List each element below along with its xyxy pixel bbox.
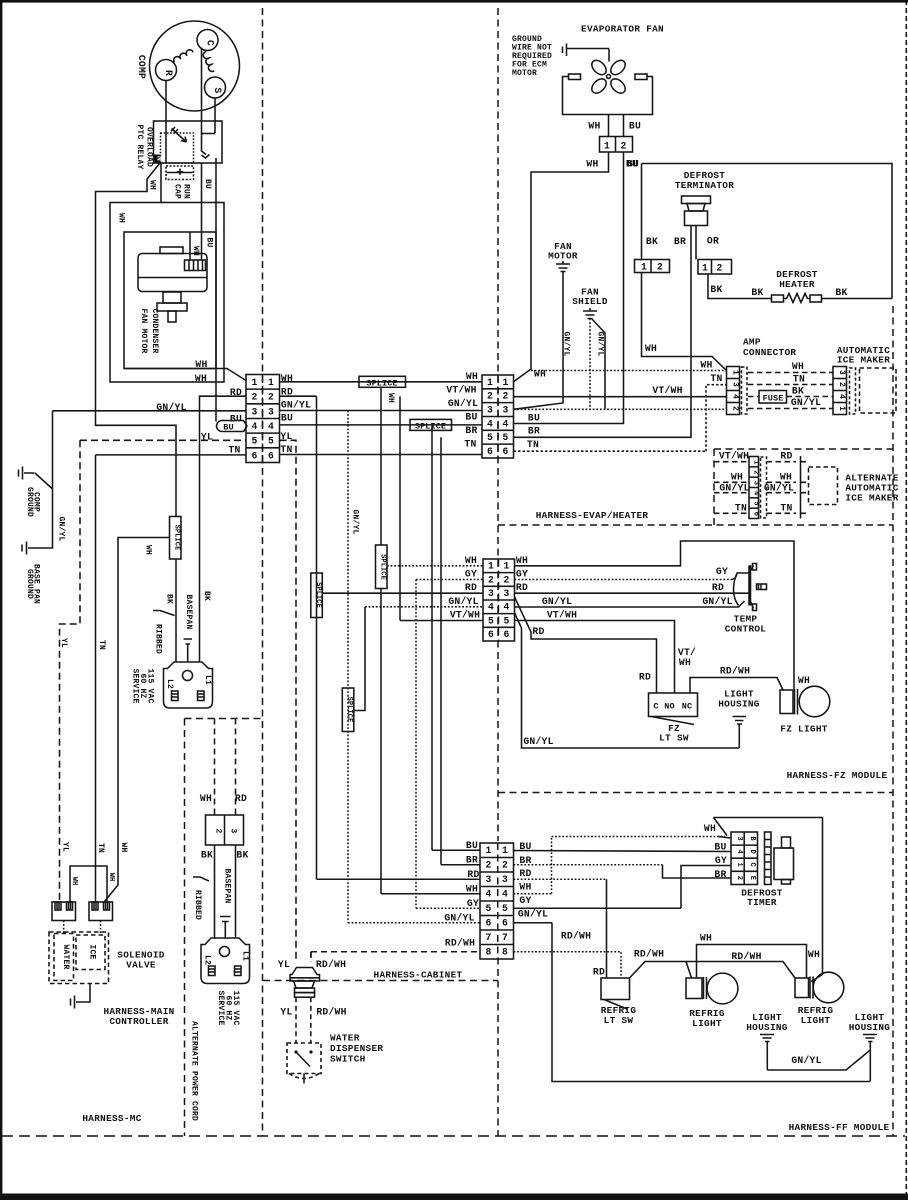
svg-text:WH: WH xyxy=(107,873,115,882)
splice SPLICE rotated box on GN/YL tap xyxy=(342,688,354,732)
svg-text:TN: TN xyxy=(710,373,722,384)
connector AMP mating strip dashed xyxy=(742,367,748,414)
svg-text:TN: TN xyxy=(735,502,747,513)
svg-text:TN: TN xyxy=(780,502,792,513)
condenser motor wire WH xyxy=(189,232,191,260)
condenser motor terminal block (hatched) xyxy=(185,260,206,271)
solenoid coil connector 2 xyxy=(89,902,113,921)
connector CABINET middle dashed xyxy=(497,843,499,959)
solenoid ICE sub-box dashed xyxy=(76,935,105,970)
svg-text:C: C xyxy=(748,863,756,867)
wire BR cab to timer xyxy=(514,864,663,866)
lamp REFRIG LIGHT 2 bulb xyxy=(813,972,844,1003)
svg-text:RD: RD xyxy=(712,582,724,593)
svg-text:2: 2 xyxy=(837,382,846,387)
connector FZ middle dashed xyxy=(498,559,500,641)
wire GY to temp control xyxy=(515,579,732,581)
svg-text:CAP: CAP xyxy=(172,184,181,199)
svg-text:MOTOR: MOTOR xyxy=(512,69,537,78)
comp ground symbol xyxy=(19,467,35,480)
svg-text:4: 4 xyxy=(251,421,257,432)
svg-text:R: R xyxy=(163,70,174,76)
wire WH fz row1 to FZ light xyxy=(515,541,795,689)
svg-text:BK: BK xyxy=(710,284,722,295)
svg-text:1: 1 xyxy=(604,141,610,152)
svg-text:BK: BK xyxy=(201,850,213,861)
svg-text:4: 4 xyxy=(503,602,509,613)
defrost terminator neck xyxy=(687,204,705,212)
svg-text:GN/YL: GN/YL xyxy=(448,596,478,607)
svg-text:SPLICE: SPLICE xyxy=(173,525,181,551)
svg-text:BU: BU xyxy=(223,422,233,432)
svg-text:HARNESS-FF MODULE: HARNESS-FF MODULE xyxy=(789,1122,890,1133)
svg-text:2: 2 xyxy=(488,574,494,585)
evap fan ground symbol xyxy=(563,44,610,57)
svg-text:RD/WH: RD/WH xyxy=(316,959,346,970)
svg-text:WH: WH xyxy=(465,555,477,566)
svg-text:5: 5 xyxy=(488,615,494,626)
svg-text:HEATER: HEATER xyxy=(779,279,815,290)
svg-text:VT/WH: VT/WH xyxy=(450,610,480,621)
svg-text:6: 6 xyxy=(502,446,508,457)
wire WH jumper solenoid coils xyxy=(70,866,107,902)
svg-text:HARNESS-CABINET: HARNESS-CABINET xyxy=(374,970,463,981)
switch WATER DISPENSER box dashed xyxy=(287,1043,321,1074)
svg-text:2: 2 xyxy=(502,391,508,402)
svg-text:BK: BK xyxy=(202,591,211,601)
svg-text:COMP: COMP xyxy=(136,55,147,79)
svg-text:BU: BU xyxy=(714,842,726,853)
svg-text:TN: TN xyxy=(228,445,240,456)
svg-text:3: 3 xyxy=(837,370,846,375)
svg-text:3: 3 xyxy=(502,874,508,885)
inline connector water (body) xyxy=(290,977,320,979)
bottom harness boundary dashed y1136 xyxy=(2,1135,905,1137)
svg-text:TN: TN xyxy=(793,374,805,385)
svg-text:HARNESS-EVAP/HEATER: HARNESS-EVAP/HEATER xyxy=(536,510,649,521)
svg-text:RD/WH: RD/WH xyxy=(634,949,664,960)
svg-text:4: 4 xyxy=(488,602,494,613)
connector defrost 1-2 (BK) xyxy=(635,260,670,273)
wire BR terminator to evap row5 xyxy=(514,226,692,438)
svg-text:RD: RD xyxy=(639,672,651,683)
wire RD/WH dashed valve to switch xyxy=(310,997,312,1043)
wire WH cab to timer xyxy=(514,837,726,894)
wire WH timer diag xyxy=(714,818,732,839)
svg-text:L1: L1 xyxy=(241,951,250,961)
light housing 1 ground symbol xyxy=(760,1035,774,1071)
svg-text:GN/YL: GN/YL xyxy=(523,736,553,747)
connector defrost timer box xyxy=(731,832,758,885)
alt ice maker dashed body xyxy=(809,467,838,505)
compressor winding C-S coil xyxy=(203,52,214,72)
alternate power cord dashed left x184.5 xyxy=(184,719,186,1137)
svg-text:TN: TN xyxy=(280,444,292,455)
wire TN down to coil xyxy=(95,455,97,902)
wire YL dashed down xyxy=(60,440,81,902)
svg-text:GN/YL: GN/YL xyxy=(57,516,66,541)
connector MC 6-pin box xyxy=(246,375,280,463)
wire RD dashed to alt cord box xyxy=(235,719,237,816)
defrost terminator cap xyxy=(682,196,711,204)
svg-text:N: N xyxy=(155,156,164,161)
svg-text:BU: BU xyxy=(465,412,477,423)
svg-text:RD/WH: RD/WH xyxy=(731,951,761,962)
splice SPLICE rotated box on RD drop xyxy=(311,573,323,618)
svg-text:GN/YL: GN/YL xyxy=(351,509,360,534)
wire WH row1 bus xyxy=(280,381,483,383)
wire GN/YL to grounds xyxy=(35,411,246,548)
harness divider dashed vertical x498 (lower) xyxy=(497,958,499,1137)
svg-text:GN/YL: GN/YL xyxy=(791,397,821,408)
switch FZ LT SW lever xyxy=(651,717,694,725)
svg-text:GN/YL: GN/YL xyxy=(542,596,572,607)
svg-text:FZ LIGHT: FZ LIGHT xyxy=(780,724,827,735)
svg-text:2: 2 xyxy=(620,141,626,152)
wire RD down to cabinet row3 xyxy=(316,396,318,879)
svg-text:SPLICE: SPLICE xyxy=(345,697,353,723)
connector evap fan 1-2 xyxy=(600,137,633,153)
splice SPLICE box on WH bus xyxy=(359,376,406,387)
svg-text:GN/YL: GN/YL xyxy=(562,331,571,356)
connector ice maker 4-pin box xyxy=(833,367,847,415)
svg-text:AMP: AMP xyxy=(743,337,761,348)
wire RD/WH to FZ light xyxy=(690,678,783,694)
svg-text:EVAPORATOR FAN: EVAPORATOR FAN xyxy=(581,24,664,35)
svg-text:2: 2 xyxy=(657,262,663,273)
water dispenser switch contacts xyxy=(294,1050,297,1053)
lamp REFRIG LIGHT 1 bulb xyxy=(707,973,738,1004)
alt basepan ground symbol xyxy=(220,917,231,939)
plug P1 blade L1 xyxy=(198,691,205,701)
svg-text:1: 1 xyxy=(251,377,257,388)
wire RD/WH lt sw to refrig light xyxy=(630,962,796,979)
svg-text:FUSE: FUSE xyxy=(763,393,784,403)
connector alt ice maker 6-pin box xyxy=(749,457,759,519)
wire GY into cab row5 xyxy=(416,907,480,909)
svg-text:GN/YL: GN/YL xyxy=(764,483,794,494)
alt ice maker header pins xyxy=(801,456,807,519)
wire GY cab to timer xyxy=(514,866,732,909)
wire BK heater loop right+top xyxy=(642,164,893,299)
svg-text:D: D xyxy=(748,849,756,853)
svg-text:BU: BU xyxy=(281,412,293,423)
svg-text:CONNECTOR: CONNECTOR xyxy=(743,347,796,358)
wire WH timer over to refrig light xyxy=(714,818,823,982)
wire RD alt row1 dashed xyxy=(767,461,797,463)
svg-text:B: B xyxy=(748,836,756,841)
temp control symbol xyxy=(731,565,754,609)
wire WH fz row1 left stub xyxy=(387,565,483,567)
svg-text:VT/WH: VT/WH xyxy=(547,610,577,621)
svg-text:1: 1 xyxy=(735,863,743,867)
svg-text:WH: WH xyxy=(704,823,716,834)
wire WH into cab row4 xyxy=(381,893,480,895)
svg-text:4: 4 xyxy=(485,888,491,899)
solenoid valve ground xyxy=(71,984,91,1009)
svg-text:3: 3 xyxy=(251,406,257,417)
svg-text:SWITCH: SWITCH xyxy=(330,1054,366,1065)
svg-text:WH: WH xyxy=(191,246,200,256)
wire TN alt row6 dashed xyxy=(714,512,749,514)
svg-text:RD/WH: RD/WH xyxy=(445,938,475,949)
svg-text:TN: TN xyxy=(464,439,476,450)
svg-text:RD: RD xyxy=(516,582,528,593)
svg-text:1: 1 xyxy=(502,377,508,388)
svg-text:BR: BR xyxy=(714,869,726,880)
svg-text:WH: WH xyxy=(780,471,792,482)
wire BU fan to evap row4 xyxy=(514,152,624,424)
harness-fz bottom dashed y792 xyxy=(498,792,893,794)
svg-text:HARNESS-MC: HARNESS-MC xyxy=(82,1113,141,1124)
svg-text:BASEPAN: BASEPAN xyxy=(184,594,193,629)
svg-text:RIBBED: RIBBED xyxy=(193,890,202,920)
connector FZ 6-pin box xyxy=(483,559,515,641)
svg-text:OR: OR xyxy=(707,236,719,247)
wire VT/WH fz row5 left stub xyxy=(400,620,483,622)
svg-text:VALVE: VALVE xyxy=(126,960,156,971)
relay terminal N xyxy=(154,155,161,164)
wire S terminal down xyxy=(214,98,216,134)
svg-text:4: 4 xyxy=(268,421,274,432)
svg-text:LIGHT: LIGHT xyxy=(692,1018,722,1029)
svg-text:LT SW: LT SW xyxy=(659,733,689,744)
svg-text:2: 2 xyxy=(502,859,508,870)
svg-text:5: 5 xyxy=(751,501,759,505)
svg-text:GY: GY xyxy=(467,898,479,909)
wire BU cab to timer xyxy=(514,851,732,852)
lamp REFRIG LIGHT 2 socket xyxy=(795,978,809,998)
svg-text:WH: WH xyxy=(195,359,207,370)
plug P2 ground pin xyxy=(220,947,230,957)
svg-text:3: 3 xyxy=(268,406,274,417)
svg-text:L2: L2 xyxy=(165,679,174,689)
wire WH fan drop xyxy=(608,115,610,137)
wire OR terminator stem xyxy=(695,226,697,260)
svg-text:5: 5 xyxy=(268,436,274,447)
condenser motor wire BU xyxy=(201,232,203,260)
svg-text:4: 4 xyxy=(487,418,493,429)
wire C terminal down xyxy=(201,48,203,147)
connector EVAP 6-pin box xyxy=(482,375,514,458)
svg-text:2: 2 xyxy=(487,391,493,402)
wire BU fan drop xyxy=(623,115,625,137)
svg-text:WH: WH xyxy=(466,371,478,382)
svg-text:FAN MOTOR: FAN MOTOR xyxy=(139,308,148,353)
svg-text:YL: YL xyxy=(278,959,290,970)
defrost terminator body xyxy=(685,211,708,226)
svg-text:RD: RD xyxy=(593,967,605,978)
svg-text:3: 3 xyxy=(503,588,509,599)
svg-text:2: 2 xyxy=(251,392,257,403)
wire BK loop left upper xyxy=(641,164,643,260)
wire WH fan to evap connector xyxy=(514,152,609,382)
evap fan motor blades xyxy=(607,75,611,79)
svg-text:1: 1 xyxy=(485,845,491,856)
plug P2 blade L1 xyxy=(235,966,242,976)
svg-text:GN/YL: GN/YL xyxy=(281,400,311,411)
svg-text:OVERLOAD: OVERLOAD xyxy=(145,127,154,167)
ice maker dashed body xyxy=(860,368,897,413)
svg-text:TERMINATOR: TERMINATOR xyxy=(675,180,734,191)
water dispenser switch bottom arc xyxy=(289,1074,319,1079)
svg-text:BU: BU xyxy=(629,121,641,132)
svg-text:1: 1 xyxy=(641,262,647,273)
wire BR down to cabinet row2 xyxy=(440,437,442,864)
evap fan left terminal xyxy=(569,74,581,80)
wire WH alt row3 dashed xyxy=(714,481,749,483)
long wire BU from relay to connector row4 xyxy=(215,158,217,422)
wire BK AMP to fuse dashed xyxy=(748,396,759,398)
light housing fz ground symbol xyxy=(733,717,747,749)
svg-text:3: 3 xyxy=(485,874,491,885)
light housing 2 ground symbol xyxy=(863,1035,877,1082)
solenoid WATER sub-box dashed xyxy=(54,934,74,981)
svg-text:1: 1 xyxy=(702,263,708,274)
wire GN/YL alt row4 dashed xyxy=(767,492,797,494)
alt cord connector box xyxy=(206,815,244,845)
svg-text:HOUSING: HOUSING xyxy=(746,1022,788,1033)
wire WH relay diagonal xyxy=(96,163,177,517)
svg-text:4: 4 xyxy=(751,491,759,495)
svg-text:RUN: RUN xyxy=(182,184,191,199)
svg-text:L1: L1 xyxy=(203,675,212,685)
harness-evap/heater bottom dashed y525 xyxy=(498,524,893,526)
wire VT/WH evap row2 to AMP pin4 xyxy=(514,396,727,398)
svg-text:SERVICE: SERVICE xyxy=(131,668,140,703)
inline connector water (top half) xyxy=(290,968,320,982)
svg-text:5: 5 xyxy=(502,903,508,914)
svg-text:BK: BK xyxy=(165,594,174,604)
svg-text:2: 2 xyxy=(485,859,491,870)
connector alt ice maker strip dashed xyxy=(761,457,767,518)
wire BK fuse to ice maker dashed xyxy=(787,396,834,398)
relay to run cap wire xyxy=(160,163,162,203)
splice SPLICE rotated box on WH drop xyxy=(376,545,388,589)
svg-text:GY: GY xyxy=(519,895,531,906)
page bottom black bar xyxy=(0,1194,908,1200)
svg-text:5: 5 xyxy=(485,903,491,914)
svg-text:RD: RD xyxy=(235,793,247,804)
svg-text:WH: WH xyxy=(119,842,128,852)
svg-text:WH: WH xyxy=(808,949,820,960)
svg-text:4: 4 xyxy=(837,394,846,399)
svg-text:WH: WH xyxy=(679,657,691,668)
wire BU down to cabinet row1 xyxy=(431,425,433,850)
splice SPLICE (left, WH/BK) rotated box xyxy=(170,517,182,560)
wire BK alt left xyxy=(214,845,216,938)
svg-text:WH: WH xyxy=(200,793,212,804)
svg-text:2: 2 xyxy=(731,406,740,411)
wire ground to fan xyxy=(608,49,610,62)
svg-text:8: 8 xyxy=(485,946,491,957)
wire VT/WH to FZ LT SW xyxy=(515,621,675,694)
svg-text:CONTROLLER: CONTROLLER xyxy=(109,1016,168,1027)
svg-text:BK: BK xyxy=(751,287,763,298)
svg-text:3: 3 xyxy=(229,828,238,833)
svg-text:YL: YL xyxy=(59,638,68,648)
wire BK from MC row2 xyxy=(200,396,247,661)
alternate ice maker dashed top y449 xyxy=(714,448,893,450)
svg-text:TN: TN xyxy=(527,439,539,450)
compressor winding R-C coil xyxy=(174,50,193,63)
wire BU row4 bus xyxy=(280,424,483,426)
overload PTC relay inner dotted box xyxy=(161,133,194,163)
svg-text:S: S xyxy=(212,87,223,93)
svg-text:4: 4 xyxy=(735,849,743,853)
defrost timer contact strip (hatched) xyxy=(765,832,772,885)
wire BK splice to power cord xyxy=(175,559,177,662)
wire YL dashed valve to switch xyxy=(295,997,297,1043)
condenser motor mount bracket xyxy=(163,292,181,303)
svg-text:RD/WH: RD/WH xyxy=(561,931,591,942)
svg-text:GY: GY xyxy=(716,566,728,577)
inline connector water (lower) xyxy=(294,981,315,988)
svg-text:L2: L2 xyxy=(203,955,212,965)
wire RD/WH dashed down to valve connector xyxy=(310,952,312,962)
run capacitor inner xyxy=(167,172,193,174)
svg-text:GY: GY xyxy=(516,569,528,580)
wire GN/YL to light housing xyxy=(515,613,740,748)
harness divider dashed vertical x498 (upper) xyxy=(497,8,499,841)
svg-text:3: 3 xyxy=(735,836,743,840)
svg-text:GN/YL: GN/YL xyxy=(719,483,749,494)
svg-text:WH: WH xyxy=(586,159,598,170)
svg-text:RIBBED: RIBBED xyxy=(154,624,163,654)
svg-text:CONTROL: CONTROL xyxy=(725,624,767,635)
svg-text:BK: BK xyxy=(236,850,248,861)
defrost heater terminal left xyxy=(772,295,784,302)
harness-cabinet dashed y980.5 xyxy=(263,980,498,982)
svg-text:3: 3 xyxy=(488,588,494,599)
svg-text:2: 2 xyxy=(716,263,722,274)
wire GY fz row2 left stub xyxy=(416,579,483,581)
svg-text:HOUSING: HOUSING xyxy=(718,699,760,710)
defrost timer motor body xyxy=(782,837,791,848)
wire C-S link xyxy=(202,133,216,135)
wire WH loop left lower to AMP pin1 xyxy=(642,273,727,371)
svg-text:5: 5 xyxy=(487,432,493,443)
defrost heater resistor xyxy=(784,294,811,303)
plug P1 blade L2 xyxy=(172,691,179,701)
svg-text:1: 1 xyxy=(487,377,493,388)
svg-text:3: 3 xyxy=(751,481,759,485)
svg-text:GN/YL: GN/YL xyxy=(596,331,605,356)
svg-text:1: 1 xyxy=(502,845,508,856)
basepan ground symbol xyxy=(184,639,193,662)
svg-text:4: 4 xyxy=(502,418,508,429)
wire TN row6 bus xyxy=(280,454,483,456)
svg-text:6: 6 xyxy=(503,629,509,640)
svg-text:LT SW: LT SW xyxy=(604,1015,634,1026)
wire GN/YL fz row4 left stub xyxy=(365,606,483,608)
svg-text:SPLICE: SPLICE xyxy=(415,421,446,431)
svg-text:RD/WH: RD/WH xyxy=(720,666,750,677)
svg-text:BASEPAN: BASEPAN xyxy=(222,868,231,903)
switch REFRIG LT SW box xyxy=(601,978,630,1000)
svg-text:YL: YL xyxy=(61,842,70,852)
svg-text:ALTERNATE POWER CORD: ALTERNATE POWER CORD xyxy=(190,1021,199,1121)
svg-text:BU: BU xyxy=(627,159,639,170)
wire YL row5 right dashed xyxy=(280,440,297,962)
wire RD cab to refrig lt sw xyxy=(514,878,607,880)
svg-text:BK: BK xyxy=(835,287,847,298)
wire VT/WH alt row1 dashed xyxy=(714,461,749,463)
condenser motor outer WH box xyxy=(110,203,224,383)
svg-text:GN/YL: GN/YL xyxy=(448,398,478,409)
svg-text:BK: BK xyxy=(792,386,804,397)
page left border xyxy=(0,0,2,1200)
